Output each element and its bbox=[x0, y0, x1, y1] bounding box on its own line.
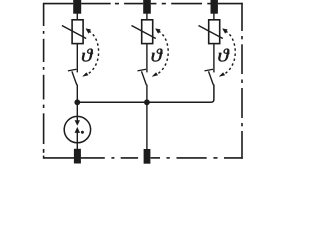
bus wire branch3 to node N1 (with rounded corner) bbox=[77, 85, 214, 103]
thermal action dashed arc bbox=[88, 31, 98, 74]
terminal PE bottom A bbox=[74, 149, 81, 164]
spark gap F1 circle bbox=[64, 116, 90, 142]
arrowhead to disconnector bbox=[152, 73, 158, 77]
terminal L1 (top) bbox=[73, 0, 81, 14]
thermal action dashed arc bbox=[225, 31, 235, 74]
wire spark gap to terminal A bbox=[76, 143, 78, 150]
wire terminal1 to varistor bbox=[76, 13, 78, 20]
border top (dash-dot) bbox=[44, 3, 243, 5]
spark gap lower electrode (up arrow) bbox=[75, 127, 80, 133]
disconnector contact tick bbox=[205, 69, 214, 71]
temperature symbol theta bbox=[152, 49, 163, 62]
wire varistor to disconnector bbox=[76, 44, 78, 73]
border bottom (dash-dot) bbox=[44, 157, 243, 159]
wire varistor to disconnector bbox=[146, 44, 148, 73]
temperature symbol theta bbox=[82, 49, 93, 62]
wire node2 to terminal B bbox=[146, 102, 148, 149]
wire terminal2 to varistor bbox=[146, 13, 148, 20]
arrowhead to disconnector bbox=[219, 73, 225, 77]
arrowhead to varistor bbox=[86, 29, 91, 34]
arrowhead to varistor bbox=[156, 29, 161, 34]
wire terminal3 to varistor bbox=[213, 13, 215, 20]
wire disconnector to node bbox=[146, 85, 148, 104]
temperature symbol theta bbox=[218, 49, 229, 62]
varistor MOV3 body bbox=[209, 20, 220, 44]
disconnector contact tick bbox=[68, 69, 77, 71]
terminal L3 (top) bbox=[211, 0, 218, 14]
disconnector blade bbox=[209, 71, 214, 85]
varistor MOV3 diagonal bbox=[199, 26, 223, 39]
disconnector blade bbox=[72, 71, 77, 85]
wire varistor to disconnector bbox=[213, 44, 215, 73]
border right (dash-dot) bbox=[241, 3, 243, 159]
varistor MOV2 diagonal bbox=[132, 26, 156, 39]
terminal L2 (top) bbox=[143, 0, 151, 14]
wire disconnector to node bbox=[76, 85, 78, 104]
varistor MOV1 diagonal bbox=[62, 26, 86, 39]
spark gap gas-filled dot bbox=[81, 131, 84, 134]
arrowhead to disconnector bbox=[83, 73, 89, 77]
arrowhead to varistor bbox=[223, 29, 228, 34]
terminal N bottom B bbox=[144, 149, 151, 164]
wire node1 to spark gap bbox=[76, 102, 78, 116]
spark gap upper electrode (down arrow) bbox=[76, 117, 78, 122]
border left (dash-dot) bbox=[43, 3, 45, 159]
disconnector blade bbox=[142, 71, 147, 85]
disconnector contact tick bbox=[138, 69, 147, 71]
thermal action dashed arc bbox=[158, 31, 168, 74]
node junction dot 2 bbox=[144, 99, 150, 105]
varistor MOV2 body bbox=[142, 20, 153, 44]
node junction dot 1 bbox=[74, 99, 80, 105]
varistor MOV1 body bbox=[72, 20, 83, 44]
